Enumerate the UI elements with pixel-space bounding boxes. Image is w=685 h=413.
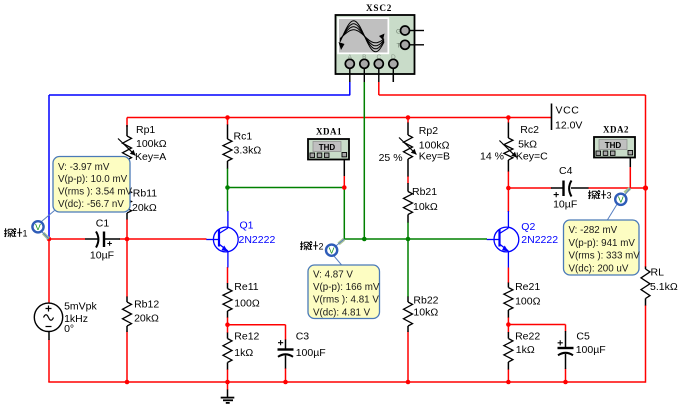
scope terminal A stub — [349, 82, 351, 95]
lead RL top — [645, 267, 647, 270]
capacitor C5 curved plate — [558, 353, 573, 356]
svg-text:Key=C: Key=C — [516, 150, 548, 162]
probe1 leaf — [43, 233, 48, 238]
svg-text:100µF: 100µF — [296, 347, 326, 359]
potentiometer Rp2 body — [404, 135, 413, 159]
junction Rc2-output — [506, 186, 511, 191]
junction input-node — [47, 237, 52, 242]
svg-text:Rp2: Rp2 — [419, 125, 438, 137]
svg-text:V(rms ): 4.81 V: V(rms ): 4.81 V — [313, 295, 379, 306]
wire red Rc2 bottom — [507, 171, 509, 188]
wire red output y=188 right — [588, 187, 646, 189]
oscilloscope XSC2 — [336, 15, 425, 82]
svg-text:20kΩ: 20kΩ — [134, 312, 159, 324]
svg-text:V(dc): 4.81 V: V(dc): 4.81 V — [313, 307, 371, 318]
lead Rp1 bottom — [126, 160, 128, 167]
junction Re11-C3 — [225, 322, 230, 327]
svg-text:Rb12: Rb12 — [134, 298, 159, 310]
svg-text:XSC2: XSC2 — [366, 3, 392, 13]
lead Re12 top — [227, 333, 229, 339]
lead Rb12 top — [126, 297, 128, 303]
junction coupling-XDA1 — [342, 185, 347, 190]
wire red C3 bottom — [285, 368, 287, 382]
lead Rc1 top — [227, 125, 229, 140]
svg-text:C4: C4 — [559, 165, 573, 177]
probe2 tooltip — [308, 265, 380, 319]
svg-text:Rb11: Rb11 — [133, 187, 157, 199]
svg-text:10µF: 10µF — [90, 250, 114, 262]
lead Re21 bottom — [507, 310, 509, 318]
wire green coupling horizontal y=187.5 — [228, 187, 345, 189]
transistor Q1 — [206, 211, 238, 268]
resistor Re21 body — [504, 288, 513, 311]
source V1 sine — [44, 315, 54, 321]
wire red Re21-Re22 junction column — [507, 317, 509, 325]
lead Rb11 top — [126, 184, 128, 190]
lead Re11 bottom — [227, 311, 229, 318]
source V1 circle — [34, 303, 62, 331]
wire red Rc2 top tick — [507, 118, 509, 124]
junction rail-Rb12 — [125, 380, 130, 385]
capacitor C4 curved plate — [569, 181, 571, 197]
wire red bypass2 horizontal y=324.5 — [508, 324, 565, 326]
junction rail-Rb22 — [406, 380, 411, 385]
svg-text:0°: 0° — [64, 323, 74, 335]
probe3 pointer to box — [608, 205, 617, 220]
wire green scope-B vertical x=364.3 — [363, 82, 365, 239]
svg-text:5mVpk: 5mVpk — [64, 300, 97, 312]
ground bar1 — [221, 397, 235, 399]
svg-text:V: V — [35, 222, 41, 232]
wire green Rb21 bottom — [407, 222, 409, 239]
junction Rb21-Rb22-basebus — [406, 237, 411, 242]
svg-text:V: -282 mV: V: -282 mV — [569, 225, 618, 236]
wire red top rail y=117.5 — [127, 117, 551, 119]
svg-text:VCC: VCC — [556, 105, 580, 117]
capacitor C3 curved plate — [278, 354, 293, 357]
svg-text:V(dc): 200 uV: V(dc): 200 uV — [569, 263, 629, 274]
resistor Rb21 body — [404, 192, 413, 215]
wire red bottom rail y=382 — [48, 381, 645, 383]
lead Rc2 top — [507, 123, 509, 139]
svg-text:100µF: 100µF — [576, 344, 606, 356]
wire red scope-C horizontal y=95 — [379, 94, 646, 96]
capacitor C3 bottom lead — [285, 356, 287, 369]
capacitor C1 curved plate — [96, 232, 98, 248]
probe2 icon — [326, 245, 337, 256]
wire red C5 top — [565, 325, 567, 332]
resistor Re22 body — [504, 339, 513, 363]
svg-text:1: 1 — [23, 229, 28, 239]
svg-text:THD: THD — [319, 143, 336, 152]
svg-text:10kΩ: 10kΩ — [413, 307, 438, 319]
capacitor C1 left lead — [85, 238, 99, 240]
lead Rb22 bottom — [407, 326, 409, 332]
potentiometer Rp1 body — [123, 136, 132, 160]
wire red Re11-Re12 junction column — [227, 317, 229, 333]
resistor Rb22 body — [404, 302, 413, 326]
capacitor C4 straight plate — [562, 181, 564, 197]
svg-text:C3: C3 — [296, 331, 310, 343]
lead Rb21 bottom — [407, 215, 409, 223]
svg-text:1kΩ: 1kΩ — [234, 347, 253, 359]
svg-text:V: 4.87 V: V: 4.87 V — [313, 270, 353, 281]
capacitor C4 plus — [554, 192, 559, 197]
svg-text:10µF: 10µF — [553, 199, 577, 211]
junction output-RL — [643, 185, 648, 190]
junction rail-Rc1 — [225, 115, 230, 120]
capacitor C4 left lead — [551, 187, 563, 189]
svg-text:Re12: Re12 — [234, 331, 259, 343]
svg-text:Q1: Q1 — [240, 219, 254, 231]
lead Re21 top — [507, 283, 509, 288]
svg-text:THD: THD — [605, 141, 622, 150]
wire red Rb12 bottom — [126, 332, 128, 383]
scope terminal C stub — [378, 82, 380, 95]
ground bar3 — [226, 402, 230, 404]
wire blue scope-A horizontal y=95 — [49, 94, 350, 96]
lead Rb21 top — [407, 183, 409, 192]
svg-text:2N2222: 2N2222 — [521, 234, 558, 246]
lead Re22 top — [507, 332, 509, 339]
wire red output vertical x=645.5 — [645, 95, 647, 188]
capacitor C5 plus — [558, 340, 563, 345]
svg-text:Key=A: Key=A — [135, 151, 166, 163]
resistor Rb12 body — [123, 302, 132, 326]
probe3 leaf — [625, 188, 630, 193]
svg-text:20kΩ: 20kΩ — [132, 202, 157, 214]
wire blue probe1 vertical x=49 — [48, 95, 50, 239]
svg-text:5kΩ: 5kΩ — [518, 138, 537, 150]
wire red XDA1 lead lower — [343, 176, 345, 188]
wire red Re22 top — [507, 325, 509, 333]
probe1 pointer to box — [42, 211, 55, 222]
potentiometer Rc2 body — [504, 138, 513, 160]
lead source bottom — [48, 332, 50, 341]
capacitor C3 top lead — [285, 340, 287, 349]
svg-text:V: V — [329, 246, 335, 256]
wire red Q2 collector upper — [507, 188, 509, 212]
distortion analyzer XDA2 — [594, 137, 635, 158]
wire red C3 top — [285, 325, 287, 340]
svg-text:Rp1: Rp1 — [136, 124, 155, 136]
VCC bar — [551, 104, 553, 131]
svg-text:C5: C5 — [576, 331, 590, 343]
lead Rb22 top — [407, 297, 409, 303]
wire red Rb22 bottom — [407, 332, 409, 383]
svg-text:12.0V: 12.0V — [555, 120, 582, 132]
distortion analyzer XDA1 — [308, 139, 349, 160]
svg-text:14 %: 14 % — [480, 150, 504, 162]
wire red Rp2-Rb21 link — [407, 176, 409, 184]
wire green Rb22 top — [407, 239, 409, 297]
resistor Re11 body — [223, 289, 232, 312]
lead Rc1 bottom — [227, 161, 229, 169]
svg-text:100Ω: 100Ω — [234, 297, 260, 309]
wire red input y=239 left — [49, 238, 85, 240]
svg-text:5.1kΩ: 5.1kΩ — [650, 281, 678, 293]
svg-text:V(p-p): 10.0 mV: V(p-p): 10.0 mV — [58, 174, 128, 185]
svg-text:25 %: 25 % — [379, 152, 403, 164]
wire red Re22 bottom — [507, 369, 509, 382]
lead Re11 top — [227, 283, 229, 289]
svg-text:Q2: Q2 — [521, 221, 535, 233]
svg-text:C1: C1 — [96, 218, 110, 230]
junction scopeB-basebus — [362, 237, 367, 242]
probe2 leaf — [339, 239, 344, 244]
probe1 icon — [32, 221, 43, 232]
svg-text:3.3kΩ: 3.3kΩ — [234, 145, 262, 157]
source V1 plus — [46, 306, 52, 312]
wire red Rc1 top tick — [227, 118, 229, 126]
probe3 tooltip — [564, 220, 641, 275]
capacitor C5 straight plate — [558, 347, 574, 349]
wire red bypass1 horizontal y=324.7 — [228, 324, 286, 326]
wire red output vertical lower x=645.5 — [645, 188, 647, 267]
lead Re12 bottom — [227, 363, 229, 370]
ground stub — [227, 390, 229, 398]
probe1 tooltip — [53, 157, 132, 213]
svg-text:3: 3 — [607, 191, 612, 201]
svg-text:RL: RL — [651, 267, 665, 279]
svg-text:100Ω: 100Ω — [515, 296, 541, 308]
probe3 icon — [615, 194, 626, 205]
junction rail-Rc2 — [506, 115, 511, 120]
wire red rail drop x=127 corner — [126, 118, 128, 128]
svg-text:V(rms ): 333 mV: V(rms ): 333 mV — [569, 251, 641, 262]
junction C1-divider — [125, 237, 130, 242]
junction rail-Re12-ground — [225, 380, 230, 385]
probe2 label (CJK) — [300, 241, 309, 250]
potentiometer Rp1 arrow — [118, 139, 136, 156]
lead RL bottom — [645, 299, 647, 306]
capacitor C5 bottom lead — [565, 354, 567, 369]
wire red Q2 emitter upper — [507, 268, 509, 284]
potentiometer Rp2 arrow — [399, 138, 417, 155]
probe2 pointer to box — [334, 255, 343, 265]
junction Re21-C5 — [506, 322, 511, 327]
resistor Re12 body — [223, 339, 232, 363]
transistor Q2 — [487, 211, 519, 268]
svg-text:V(p-p): 941 mV: V(p-p): 941 mV — [569, 238, 636, 249]
svg-text:Rb21: Rb21 — [412, 186, 437, 198]
svg-text:10kΩ: 10kΩ — [413, 201, 438, 213]
svg-text:XDA1: XDA1 — [316, 126, 342, 136]
resistor RL body — [641, 269, 650, 299]
svg-text:Rc1: Rc1 — [234, 131, 253, 143]
source V1 minus — [46, 326, 52, 328]
lead Rb12 bottom — [126, 326, 128, 332]
resistor Rc1 body — [223, 139, 232, 161]
svg-text:Rb22: Rb22 — [413, 295, 438, 307]
svg-text:2N2222: 2N2222 — [239, 234, 276, 246]
lead Rp2 top — [407, 123, 409, 136]
lead Rc2 bottom — [507, 160, 509, 172]
wire red input y=239 right — [120, 238, 207, 240]
junction rail-Re22 — [506, 380, 511, 385]
wire green Rc1 bottom — [227, 168, 229, 188]
probe2 pointer to node — [336, 239, 344, 246]
wire red Re12 bottom — [227, 369, 229, 382]
svg-text:1kΩ: 1kΩ — [516, 344, 535, 356]
capacitor C3 plus — [278, 340, 283, 345]
scope terminal D stub — [392, 74, 394, 82]
svg-text:Rc2: Rc2 — [520, 124, 539, 136]
wire red source column lower — [48, 340, 50, 383]
svg-text:V(p-p): 166 mV: V(p-p): 166 mV — [313, 282, 380, 293]
svg-text:Re22: Re22 — [515, 331, 540, 343]
wire red Q1 emitter upper — [227, 267, 229, 284]
lead Rp1 top — [126, 125, 128, 136]
wire red C5 bottom — [565, 369, 567, 383]
probe3 pointer to node — [625, 188, 631, 195]
lead Re22 bottom — [507, 362, 509, 370]
wire green interstage vertical x=344.3 — [343, 188, 345, 240]
wire green base bus y=239 — [344, 238, 487, 240]
svg-text:V: V — [618, 195, 624, 205]
svg-text:Re11: Re11 — [234, 281, 258, 293]
junction rail-Rp2 — [406, 115, 411, 120]
wire red RL bottom x=645.5 — [645, 305, 647, 383]
probe3 label (CJK) — [588, 190, 597, 199]
wire black XDA1 lead upper — [343, 158, 345, 177]
junction rail-C5 — [563, 380, 568, 385]
svg-text:V: -3.97 mV: V: -3.97 mV — [58, 162, 110, 173]
svg-text:V(dc): -56.7 nV: V(dc): -56.7 nV — [58, 199, 124, 210]
probe1 pointer to node — [42, 232, 49, 239]
lead Rp2 bottom — [407, 159, 409, 177]
capacitor C1 straight plate — [103, 232, 105, 248]
capacitor C4 right lead — [571, 187, 589, 189]
junction Rc1-collector — [225, 185, 230, 190]
svg-text:100kΩ: 100kΩ — [136, 138, 167, 150]
wire red source column upper — [48, 239, 50, 304]
capacitor C1 plus — [107, 241, 112, 246]
wire green Q1 collector — [227, 188, 229, 212]
wire red Rp2 top tick — [407, 118, 409, 124]
svg-text:2: 2 — [319, 242, 324, 252]
capacitor C1 right lead — [105, 238, 120, 240]
wire red Rb11-Rb12 column — [126, 219, 128, 297]
svg-text:Key=B: Key=B — [419, 150, 450, 162]
svg-text:V(rms ): 3.54 mV: V(rms ): 3.54 mV — [58, 187, 132, 198]
component value labels — [64, 124, 678, 359]
svg-text:Re21: Re21 — [515, 281, 540, 293]
ground bar2 — [223, 399, 233, 401]
wire black XDA2 lead upper — [629, 158, 631, 167]
wire red output y=188 left — [508, 187, 551, 189]
probe1 label (CJK) — [4, 228, 13, 237]
ground stub red — [227, 382, 229, 390]
svg-text:XDA2: XDA2 — [603, 124, 629, 134]
potentiometer Rc2 arrow — [499, 141, 517, 158]
resistor Rb11 body — [123, 190, 132, 213]
capacitor C3 straight plate — [278, 348, 294, 350]
wire red XDA2 lead lower — [629, 167, 631, 188]
wire red Rp1 column segment — [126, 166, 128, 185]
capacitor C5 top lead — [565, 331, 567, 347]
lead Rb11 bottom — [126, 213, 128, 220]
junction rail-C3 — [283, 380, 288, 385]
